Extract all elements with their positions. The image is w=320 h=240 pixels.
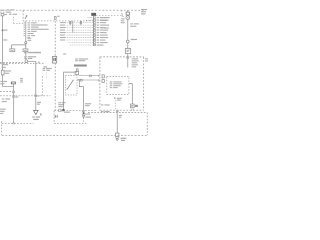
wire top module dashed boundary xyxy=(5,9,144,11)
connector inline box sw xyxy=(75,72,79,75)
module M1 left dashed box xyxy=(22,10,24,21)
wire rows into connector xyxy=(67,18,94,45)
component symbol circle xyxy=(126,16,130,20)
connector C2 circle xyxy=(25,60,28,63)
wire branch to ground G202 xyxy=(79,80,83,113)
module M2 top-right dashed sub-box xyxy=(96,14,122,16)
node splice label bar xyxy=(74,65,87,67)
wire dashed vertical x42 xyxy=(41,76,43,96)
splice S1 xyxy=(2,29,4,31)
wire right vertical xyxy=(127,20,129,41)
module M4 bottom-middle dashed box xyxy=(54,110,97,112)
wire xyxy=(127,43,129,49)
node pin labels right xyxy=(97,17,110,45)
fuse right branch top xyxy=(127,10,129,12)
fuse F1 top-left xyxy=(1,14,4,16)
node wire color stubs xyxy=(60,22,66,40)
wire G301 drop xyxy=(116,110,118,133)
node pin at top of boundary xyxy=(54,17,56,20)
connector A pass-through box xyxy=(52,57,56,64)
node pin into bottom-left box xyxy=(13,122,15,124)
connector inline box bottom-right xyxy=(131,104,135,108)
node crossing pin ticks xyxy=(13,91,15,94)
module M3 BCM dashed box xyxy=(100,57,144,110)
wire branch to ground run xyxy=(28,61,36,110)
wire left vertical cont xyxy=(1,31,3,70)
wire to BCM pin1 xyxy=(79,75,100,77)
ground G202 xyxy=(82,115,85,118)
connector square on boundary xyxy=(116,133,120,136)
wire connector spine xyxy=(92,16,94,46)
connector C3 circle xyxy=(126,40,129,43)
wire vertical crossing rows xyxy=(72,21,74,33)
wire dashed boundary double mid xyxy=(0,62,28,64)
wire short dashed stub top-left xyxy=(0,11,7,13)
node labels above fuse F2 xyxy=(2,64,9,68)
wire dashed harness boundary vertical xyxy=(54,21,56,57)
node pin boxes on BCM left edge xyxy=(102,75,104,78)
node lower-left labels xyxy=(0,98,10,114)
node crossing ticks ground wire xyxy=(35,94,37,97)
relay K1 box xyxy=(10,49,15,52)
switch SW1 feed wire xyxy=(77,69,78,72)
wire dashed boundary right long xyxy=(88,112,147,114)
wire dashed boundary mid-left xyxy=(0,95,51,97)
wire switch bottom drop xyxy=(63,95,65,109)
module M3 inner dashed box xyxy=(107,77,129,95)
wire dotted stub xyxy=(46,72,48,78)
ground G200 xyxy=(34,110,39,114)
wire into BCM xyxy=(127,54,129,59)
wire sw to BCM pin2 xyxy=(77,79,100,81)
ground G301 xyxy=(115,138,119,141)
node pin number column xyxy=(24,22,25,36)
node top-right labels xyxy=(141,9,147,14)
node stub connector pigtail 1 xyxy=(69,21,71,25)
wire xyxy=(25,52,27,60)
wire left vertical xyxy=(1,16,3,29)
wire to relay boxes xyxy=(12,44,26,49)
relay K2 box xyxy=(23,49,28,52)
splice dot xyxy=(83,113,85,115)
node stub connector pigtail 2 xyxy=(80,21,82,25)
node feed labels xyxy=(7,9,17,15)
switch SW1 inner dashed box xyxy=(65,76,77,95)
wire long bottom dashed boundary xyxy=(2,134,148,136)
connector inline box right xyxy=(125,48,130,53)
connector C1 circle xyxy=(25,42,27,44)
wire dashed stub x115 xyxy=(114,98,116,111)
splice dot on boundary xyxy=(62,109,64,111)
node arrow symbol xyxy=(25,16,27,19)
connector dark box left xyxy=(11,82,15,84)
wire dashed boundary left short xyxy=(0,90,13,92)
module M5 bottom-left dashed box xyxy=(2,122,34,124)
switch SW1 outline xyxy=(64,72,77,95)
wire feed vertical xyxy=(25,21,27,42)
node dashed L notch xyxy=(13,17,23,24)
wire from inner box down xyxy=(129,84,132,104)
node top-left label xyxy=(0,10,4,11)
connector X1 header xyxy=(92,13,96,15)
fuse F2 left xyxy=(1,70,4,75)
connector pin boxes column xyxy=(94,17,96,46)
wire left vertical lower, turn right xyxy=(2,75,13,86)
node pin label table xyxy=(28,22,49,41)
switch lever xyxy=(67,80,73,89)
wire left drop to bottom box xyxy=(13,84,15,123)
